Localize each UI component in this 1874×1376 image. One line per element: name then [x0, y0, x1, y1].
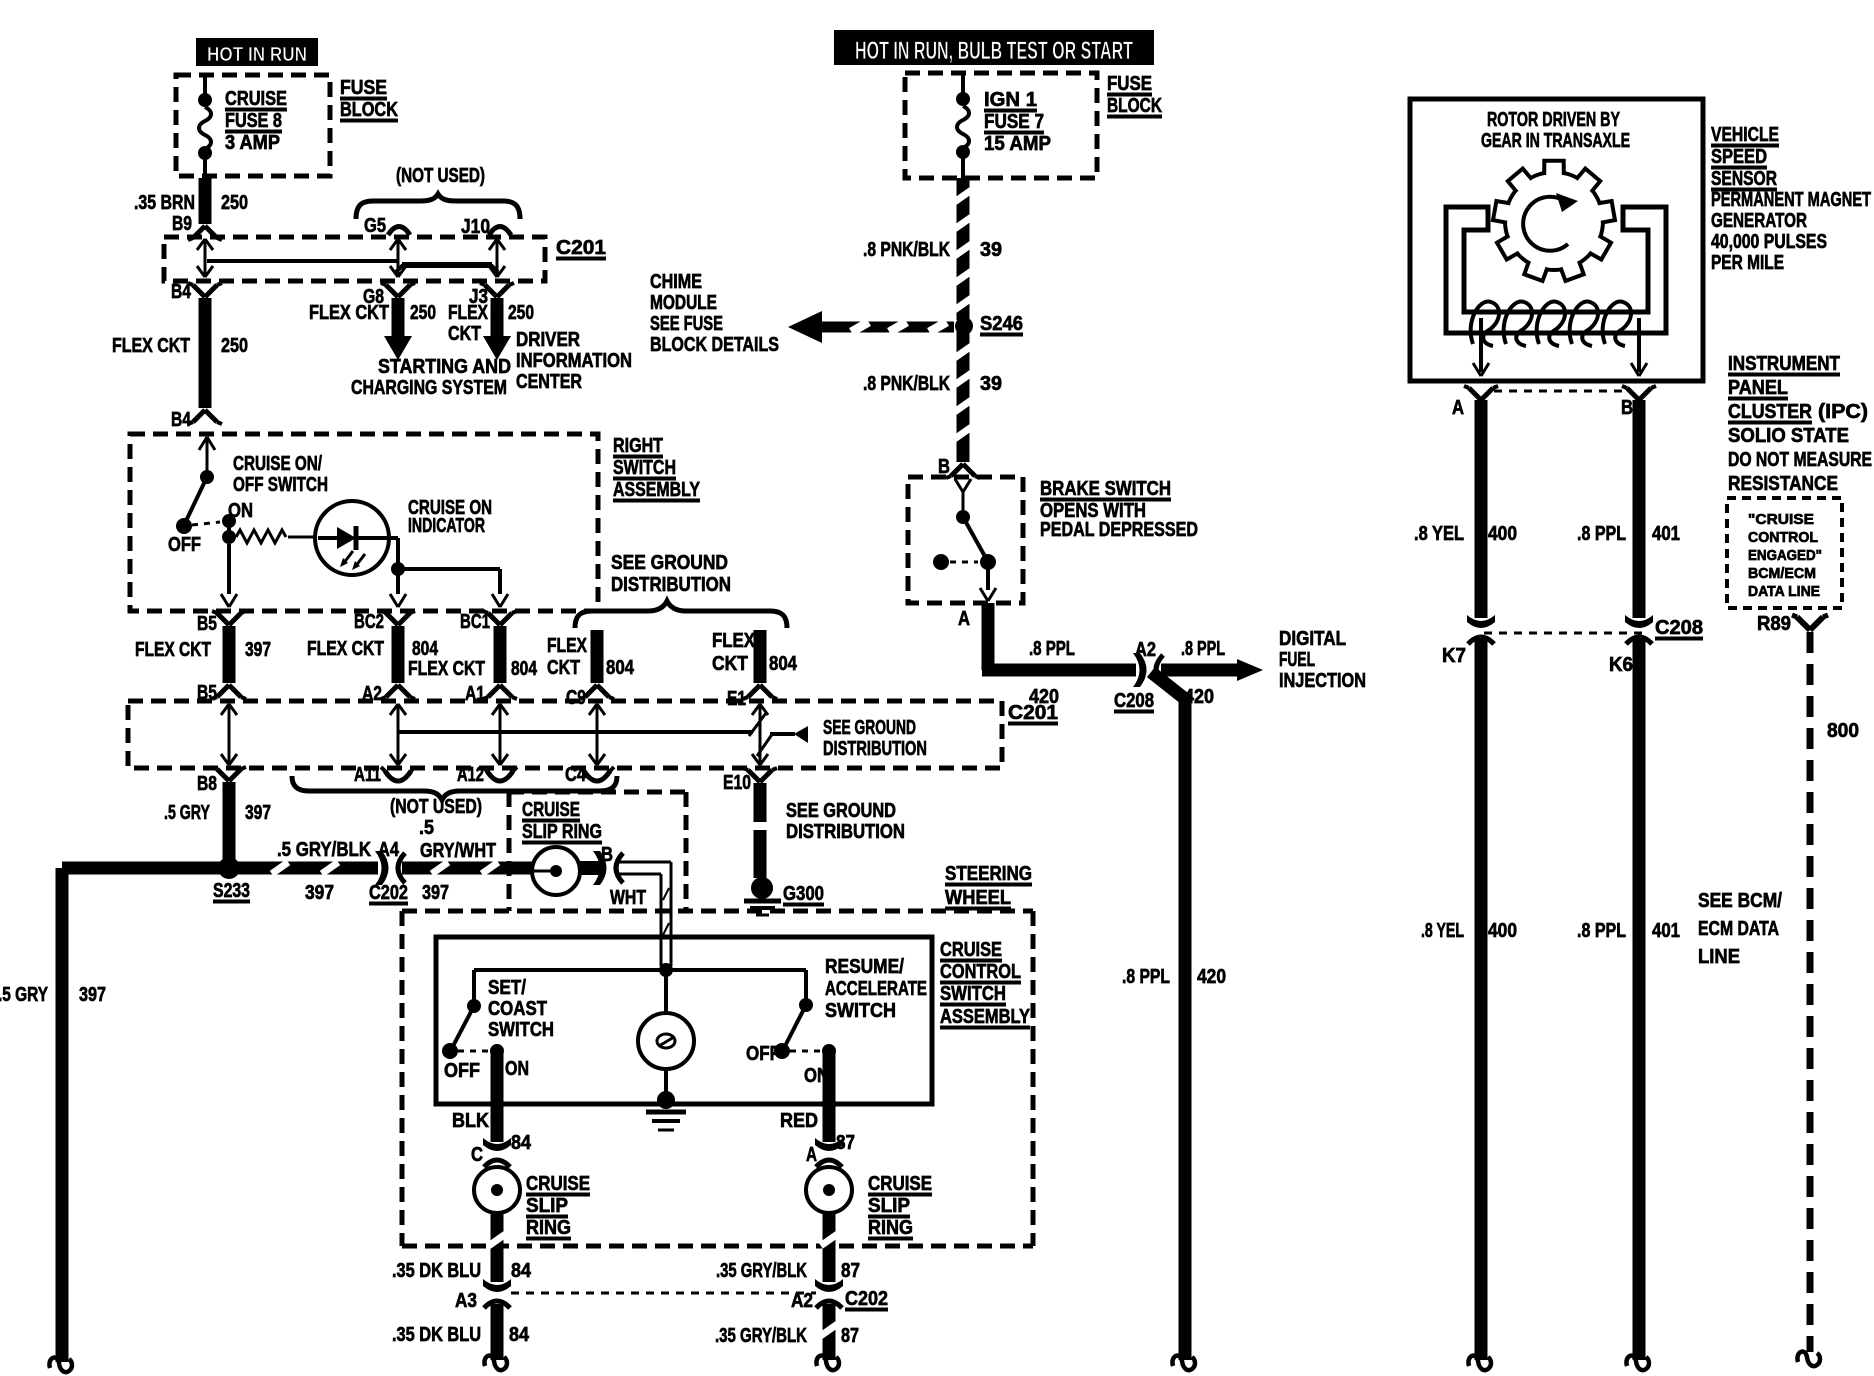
svg-text:VEHICLE: VEHICLE [1711, 124, 1779, 146]
svg-text:SEE BCM/: SEE BCM/ [1698, 890, 1782, 912]
svg-text:3 AMP: 3 AMP [225, 132, 280, 154]
svg-text:SEE FUSE: SEE FUSE [650, 313, 723, 335]
svg-text:397: 397 [305, 882, 334, 904]
svg-text:B9: B9 [172, 213, 192, 235]
svg-text:HOT IN RUN, BULB TEST OR START: HOT IN RUN, BULB TEST OR START [855, 37, 1133, 65]
svg-text:CONTROL: CONTROL [1748, 529, 1818, 546]
svg-text:397: 397 [79, 984, 106, 1006]
svg-text:.8 PNK/BLK: .8 PNK/BLK [863, 239, 950, 261]
svg-text:15 AMP: 15 AMP [984, 133, 1051, 155]
svg-text:ACCELERATE: ACCELERATE [825, 978, 927, 1000]
svg-text:OFF SWITCH: OFF SWITCH [233, 474, 328, 496]
svg-text:C: C [471, 1144, 483, 1166]
svg-text:400: 400 [1488, 920, 1517, 942]
svg-text:FLEX CKT: FLEX CKT [135, 639, 211, 661]
svg-text:BLOCK: BLOCK [340, 99, 398, 121]
svg-text:FLEX: FLEX [547, 635, 588, 657]
svg-text:PEDAL DEPRESSED: PEDAL DEPRESSED [1040, 519, 1198, 541]
svg-text:84: 84 [511, 1260, 532, 1282]
svg-text:.35 DK BLU: .35 DK BLU [392, 1324, 481, 1346]
svg-text:MODULE: MODULE [650, 292, 717, 314]
svg-text:.8 YEL: .8 YEL [1421, 920, 1464, 942]
svg-text:A: A [806, 1144, 817, 1166]
svg-text:INDICATOR: INDICATOR [408, 515, 485, 537]
svg-text:G300: G300 [783, 883, 824, 905]
svg-text:FLEX CKT: FLEX CKT [307, 638, 384, 660]
svg-text:FUSE 7: FUSE 7 [984, 111, 1044, 133]
svg-text:401: 401 [1652, 523, 1680, 545]
svg-text:84: 84 [511, 1132, 532, 1154]
svg-text:DATA LINE: DATA LINE [1748, 583, 1820, 600]
svg-text:SWITCH: SWITCH [488, 1019, 554, 1041]
svg-text:C4: C4 [565, 764, 587, 786]
svg-text:ASSEMBLY: ASSEMBLY [940, 1006, 1031, 1028]
svg-text:400: 400 [1488, 523, 1517, 545]
svg-text:INJECTION: INJECTION [1279, 670, 1366, 692]
svg-text:FUSE: FUSE [340, 77, 387, 99]
svg-text:B4: B4 [171, 409, 192, 431]
svg-text:DISTRIBUTION: DISTRIBUTION [611, 574, 731, 596]
svg-text:401: 401 [1652, 920, 1680, 942]
svg-text:39: 39 [980, 239, 1002, 261]
svg-text:.5 GRY/BLK: .5 GRY/BLK [277, 839, 371, 861]
svg-text:SEE GROUND: SEE GROUND [786, 800, 896, 822]
svg-text:BLOCK: BLOCK [1107, 95, 1162, 117]
svg-text:A: A [958, 608, 970, 630]
svg-text:B: B [1621, 397, 1633, 419]
svg-text:.8 PPL: .8 PPL [1029, 638, 1075, 660]
svg-text:.5 GRY: .5 GRY [164, 802, 210, 824]
svg-text:FUEL: FUEL [1279, 649, 1315, 671]
svg-text:.8 PPL: .8 PPL [1577, 523, 1626, 545]
svg-text:BLOCK DETAILS: BLOCK DETAILS [650, 334, 779, 356]
svg-text:CKT: CKT [547, 657, 580, 679]
svg-text:40,000 PULSES: 40,000 PULSES [1711, 231, 1827, 253]
svg-text:FLEX CKT: FLEX CKT [408, 658, 485, 680]
svg-text:420: 420 [1197, 966, 1226, 988]
svg-text:A11: A11 [354, 764, 381, 786]
svg-text:CRUISE: CRUISE [526, 1173, 590, 1195]
svg-text:S246: S246 [980, 313, 1023, 335]
svg-text:COAST: COAST [488, 998, 547, 1020]
svg-text:SWITCH: SWITCH [613, 457, 676, 479]
svg-text:"CRUISE: "CRUISE [1748, 511, 1814, 528]
svg-text:DO NOT MEASURE: DO NOT MEASURE [1728, 449, 1872, 471]
svg-text:SPEED: SPEED [1711, 146, 1767, 168]
svg-text:ROTOR DRIVEN BY: ROTOR DRIVEN BY [1487, 109, 1620, 131]
svg-text:804: 804 [606, 657, 635, 679]
svg-text:ON: ON [228, 500, 253, 522]
svg-text:250: 250 [508, 302, 534, 324]
svg-text:250: 250 [410, 302, 436, 324]
svg-text:A2: A2 [1135, 639, 1156, 661]
svg-text:.35 BRN: .35 BRN [134, 192, 195, 214]
svg-text:K6: K6 [1609, 654, 1633, 676]
svg-text:DISTRIBUTION: DISTRIBUTION [786, 821, 905, 843]
svg-text:GEAR IN TRANSAXLE: GEAR IN TRANSAXLE [1481, 130, 1630, 152]
svg-text:.8 PPL: .8 PPL [1122, 966, 1170, 988]
svg-text:STARTING AND: STARTING AND [378, 356, 511, 378]
svg-text:FUSE 8: FUSE 8 [225, 110, 282, 132]
svg-text:B5: B5 [197, 613, 217, 635]
svg-text:FUSE: FUSE [1107, 73, 1152, 95]
svg-text:CRUISE: CRUISE [225, 88, 287, 110]
svg-text:R89: R89 [1757, 613, 1791, 635]
svg-text:OFF: OFF [746, 1043, 780, 1065]
svg-text:FLEX CKT: FLEX CKT [309, 302, 389, 324]
svg-text:.8 PNK/BLK: .8 PNK/BLK [863, 373, 950, 395]
svg-text:CKT: CKT [712, 653, 748, 675]
svg-text:RED: RED [780, 1110, 818, 1132]
svg-text:CENTER: CENTER [516, 371, 582, 393]
svg-text:C208: C208 [1655, 617, 1703, 639]
svg-text:SWITCH: SWITCH [940, 983, 1006, 1005]
svg-text:SEE GROUND: SEE GROUND [823, 717, 916, 739]
svg-text:250: 250 [221, 192, 248, 214]
svg-text:C201: C201 [556, 237, 606, 259]
svg-text:BC2: BC2 [354, 611, 384, 633]
svg-text:G5: G5 [364, 215, 386, 237]
svg-text:.35 GRY/BLK: .35 GRY/BLK [715, 1325, 807, 1347]
svg-text:E10: E10 [723, 772, 751, 794]
svg-text:SEE GROUND: SEE GROUND [611, 552, 728, 574]
svg-text:A3: A3 [455, 1290, 477, 1312]
svg-text:SLIP RING: SLIP RING [522, 821, 602, 843]
svg-text:SOLIO STATE: SOLIO STATE [1728, 425, 1849, 447]
svg-text:420: 420 [1029, 686, 1059, 708]
svg-text:PANEL: PANEL [1728, 377, 1788, 399]
svg-text:FLEX CKT: FLEX CKT [112, 335, 190, 357]
svg-text:C9: C9 [566, 687, 586, 709]
svg-text:C202: C202 [369, 882, 408, 904]
svg-text:A2: A2 [791, 1290, 813, 1312]
svg-text:RIGHT: RIGHT [613, 435, 663, 457]
svg-text:ECM DATA: ECM DATA [1698, 918, 1779, 940]
svg-text:CRUISE ON/: CRUISE ON/ [233, 453, 322, 475]
svg-text:BCM/ECM: BCM/ECM [1748, 565, 1816, 582]
svg-text:OFF: OFF [444, 1060, 480, 1082]
svg-text:GENERATOR: GENERATOR [1711, 210, 1807, 232]
svg-text:(IPC): (IPC) [1818, 401, 1868, 423]
svg-text:CRUISE: CRUISE [868, 1173, 932, 1195]
svg-text:B4: B4 [171, 281, 192, 303]
svg-text:A: A [1452, 397, 1464, 419]
svg-text:GRY/WHT: GRY/WHT [420, 840, 496, 862]
svg-text:B: B [601, 844, 613, 866]
svg-text:SET/: SET/ [488, 977, 526, 999]
svg-text:DRIVER: DRIVER [516, 329, 580, 351]
svg-text:STEERING: STEERING [945, 863, 1032, 885]
svg-text:ENGAGED": ENGAGED" [1748, 547, 1822, 564]
svg-text:397: 397 [422, 882, 449, 904]
svg-text:RING: RING [526, 1217, 571, 1239]
svg-text:BRAKE SWITCH: BRAKE SWITCH [1040, 478, 1171, 500]
svg-text:397: 397 [245, 639, 271, 661]
svg-text:WHT: WHT [610, 887, 646, 909]
svg-text:BLK: BLK [452, 1110, 489, 1132]
svg-text:.35 DK BLU: .35 DK BLU [392, 1260, 481, 1282]
svg-text:CHIME: CHIME [650, 271, 702, 293]
svg-text:SLIP: SLIP [526, 1195, 568, 1217]
svg-text:(NOT USED): (NOT USED) [396, 165, 485, 187]
svg-text:PER MILE: PER MILE [1711, 252, 1784, 274]
svg-text:A4: A4 [378, 839, 400, 861]
svg-text:RING: RING [868, 1217, 913, 1239]
svg-text:84: 84 [509, 1324, 530, 1346]
svg-text:LINE: LINE [1698, 946, 1740, 968]
svg-text:.8 YEL: .8 YEL [1414, 523, 1464, 545]
svg-text:.8 PPL: .8 PPL [1577, 920, 1626, 942]
svg-text:CLUSTER: CLUSTER [1728, 401, 1812, 423]
svg-text:.8 PPL: .8 PPL [1181, 638, 1225, 660]
svg-text:PERMANENT MAGNET: PERMANENT MAGNET [1711, 189, 1871, 211]
svg-text:J10: J10 [461, 216, 490, 238]
svg-text:S233: S233 [213, 880, 250, 902]
svg-text:CRUISE: CRUISE [940, 939, 1002, 961]
svg-text:.5 GRY: .5 GRY [0, 984, 49, 1006]
svg-text:INSTRUMENT: INSTRUMENT [1728, 353, 1840, 375]
svg-text:C202: C202 [845, 1288, 888, 1310]
svg-text:RESISTANCE: RESISTANCE [1728, 473, 1838, 495]
svg-text:804: 804 [769, 653, 798, 675]
svg-text:C208: C208 [1114, 690, 1154, 712]
svg-text:.5: .5 [419, 817, 434, 839]
svg-text:CKT: CKT [448, 323, 481, 345]
svg-text:SWITCH: SWITCH [825, 1000, 896, 1022]
svg-text:ON: ON [505, 1058, 529, 1080]
svg-text:INFORMATION: INFORMATION [516, 350, 632, 372]
svg-text:BC1: BC1 [460, 611, 490, 633]
svg-text:WHEEL: WHEEL [945, 887, 1011, 909]
svg-text:397: 397 [245, 802, 271, 824]
svg-text:CRUISE: CRUISE [522, 799, 580, 821]
svg-text:FLEX: FLEX [712, 630, 756, 652]
svg-text:FLEX: FLEX [448, 302, 489, 324]
svg-text:A12: A12 [457, 764, 484, 786]
svg-text:CONTROL: CONTROL [940, 961, 1021, 983]
svg-text:SENSOR: SENSOR [1711, 168, 1777, 190]
svg-text:804: 804 [511, 658, 538, 680]
svg-text:RESUME/: RESUME/ [825, 956, 904, 978]
svg-text:(NOT USED): (NOT USED) [390, 796, 482, 818]
svg-text:804: 804 [412, 638, 439, 660]
svg-text:.35 GRY/BLK: .35 GRY/BLK [716, 1260, 807, 1282]
svg-text:IGN 1: IGN 1 [984, 89, 1037, 111]
svg-text:B8: B8 [197, 773, 217, 795]
svg-text:800: 800 [1827, 720, 1859, 742]
svg-text:SLIP: SLIP [868, 1195, 910, 1217]
svg-text:39: 39 [980, 373, 1002, 395]
svg-text:CHARGING SYSTEM: CHARGING SYSTEM [351, 377, 507, 399]
svg-text:DIGITAL: DIGITAL [1279, 628, 1346, 650]
svg-text:250: 250 [221, 335, 248, 357]
svg-text:ASSEMBLY: ASSEMBLY [613, 479, 701, 501]
svg-text:HOT IN RUN: HOT IN RUN [207, 44, 307, 66]
svg-text:87: 87 [841, 1325, 859, 1347]
svg-text:OFF: OFF [168, 534, 201, 556]
svg-text:87: 87 [841, 1260, 860, 1282]
svg-text:K7: K7 [1442, 645, 1466, 667]
svg-text:DISTRIBUTION: DISTRIBUTION [823, 738, 927, 760]
